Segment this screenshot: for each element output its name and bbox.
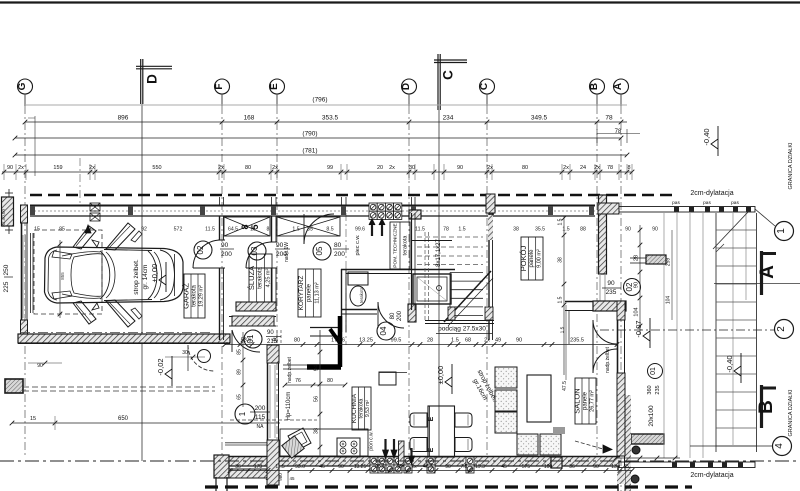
svg-text:78: 78 [607, 165, 613, 171]
svg-text:KUCHNIA: KUCHNIA [351, 393, 358, 423]
garage vertical dim [58, 240, 63, 318]
svg-text:F: F [214, 83, 225, 89]
column dot 2 [631, 475, 639, 483]
arrows down kitchen wall [383, 439, 398, 459]
dimension line row1 [23, 115, 627, 125]
svg-text:80: 80 [390, 312, 396, 319]
garage east wall [218, 216, 225, 340]
svg-text:93.6: 93.6 [295, 464, 305, 470]
svg-text:90: 90 [37, 363, 43, 369]
svg-text:19.3: 19.3 [475, 464, 485, 470]
axis bubble 2 [600, 320, 794, 339]
level marker -0,40 lower [725, 353, 741, 383]
interior dim labels row [34, 227, 658, 233]
interior dim line mid [223, 338, 620, 347]
svg-text:90: 90 [7, 165, 13, 171]
svg-text:88: 88 [580, 227, 586, 233]
window symbol grid bottom B [404, 457, 412, 473]
svg-text:C: C [441, 70, 456, 80]
bottom right expansion joint bar [614, 456, 755, 468]
grid line D [408, 94, 410, 106]
svg-text:terakota: terakota [359, 286, 364, 303]
svg-text:2x: 2x [389, 165, 395, 171]
svg-text:11.5: 11.5 [205, 227, 215, 233]
level marker -0,02 [156, 356, 172, 386]
dark box bottom wall [551, 457, 562, 468]
svg-text:E: E [428, 447, 435, 452]
svg-text:360: 360 [647, 385, 653, 394]
svg-text:259: 259 [666, 258, 672, 267]
window sill lines [225, 442, 268, 444]
svg-text:36: 36 [569, 464, 575, 470]
right exterior wall salon [617, 301, 625, 466]
svg-text:550: 550 [152, 165, 161, 171]
sofa cushion v3 [495, 412, 517, 433]
lintel X box 1 [224, 217, 270, 236]
window label 90/235 [602, 279, 641, 297]
room label SLUZA [247, 254, 272, 302]
svg-text:90: 90 [607, 280, 615, 287]
svg-text:173: 173 [254, 464, 263, 470]
svg-text:78: 78 [443, 227, 449, 233]
svg-text:nadp.żelbet: nadp.żelbet [605, 346, 611, 372]
svg-text:Rz.±0,00: Rz.±0,00 [1, 209, 6, 227]
svg-text:pion c.w.: pion c.w. [369, 431, 375, 450]
level marker -0,07 [634, 318, 650, 348]
svg-text:2cm-dylatacja: 2cm-dylatacja [690, 190, 733, 197]
svg-text:1.5: 1.5 [292, 227, 299, 233]
svg-text:POKÓJ: POKÓJ [519, 246, 528, 272]
svg-text:80: 80 [522, 165, 528, 171]
svg-text:46: 46 [272, 338, 278, 344]
svg-text:2x: 2x [18, 165, 24, 171]
svg-text:(781): (781) [302, 148, 317, 155]
svg-text:159: 159 [53, 165, 62, 171]
svg-text:90: 90 [445, 464, 451, 470]
svg-text:353.5: 353.5 [322, 115, 339, 122]
svg-text:99.5: 99.5 [391, 338, 402, 344]
svg-text:terakota: terakota [358, 398, 364, 419]
section marker A right [757, 251, 778, 295]
svg-text:GRANICA DZIAŁKI: GRANICA DZIAŁKI [788, 142, 794, 190]
svg-text:650: 650 [118, 416, 129, 422]
svg-text:2x: 2x [272, 165, 278, 171]
svg-text:30: 30 [182, 350, 188, 356]
dylatacja strip right wall [626, 395, 632, 491]
svg-text:28: 28 [427, 338, 433, 344]
dining chair 4 [455, 438, 472, 452]
svg-text:G: G [17, 82, 28, 90]
svg-text:11.5: 11.5 [415, 227, 425, 233]
kitchen west dim line [242, 332, 244, 407]
section marker C [434, 54, 467, 110]
svg-text:7.5: 7.5 [461, 464, 468, 470]
svg-text:NA: NA [257, 424, 265, 430]
svg-text:200: 200 [397, 310, 403, 321]
svg-text:11.5: 11.5 [275, 464, 285, 470]
sofa cushion h2 [540, 434, 561, 455]
auxiliary axis line [345, 213, 347, 345]
svg-text:E: E [269, 83, 280, 90]
grid bubble G [17, 79, 33, 94]
grid bubble B [589, 79, 605, 94]
column dot 1 [632, 446, 640, 454]
svg-text:78: 78 [605, 115, 613, 122]
door arc 01 [232, 330, 260, 352]
pokoj south wall [565, 301, 626, 311]
svg-text:2x: 2x [411, 464, 417, 470]
dining chair 3 [455, 413, 472, 427]
arrow down chair [410, 448, 412, 458]
door arc garage [193, 240, 221, 268]
fireplace hatched bar [631, 434, 664, 444]
left pillar bottom [5, 379, 23, 393]
room label KUCHNIA [351, 387, 371, 430]
corner hatch bar [229, 469, 268, 478]
svg-text:104: 104 [634, 307, 640, 316]
terrace top expansion joint bar [619, 201, 775, 226]
svg-text:234: 234 [443, 115, 454, 122]
svg-text:-0,07: -0,07 [634, 320, 643, 337]
svg-text:-0,40: -0,40 [725, 355, 734, 372]
svg-text:D: D [401, 83, 412, 90]
terrace diagonal [713, 212, 748, 249]
wc toilet [348, 272, 368, 306]
svg-text:(790): (790) [302, 131, 317, 138]
grid bubble A [613, 79, 629, 94]
dimension line row4 detailed [2, 164, 635, 180]
room label KORYTARZ [298, 269, 321, 317]
svg-text:90: 90 [267, 330, 274, 336]
door label 01 [244, 330, 281, 348]
room label POKOJ [519, 237, 543, 280]
svg-text:64.5: 64.5 [228, 227, 238, 233]
svg-text:99: 99 [327, 165, 333, 171]
kitchen sink [282, 428, 311, 458]
svg-text:85: 85 [307, 227, 313, 233]
window symbol grid bottom A [370, 457, 402, 473]
svg-text:85: 85 [237, 349, 243, 355]
svg-text:E: E [428, 416, 435, 421]
small tick labels left [28, 361, 62, 369]
svg-text:235.5: 235.5 [570, 338, 584, 344]
svg-text:38: 38 [396, 464, 402, 470]
svg-text:90: 90 [221, 242, 229, 249]
svg-text:terakota: terakota [258, 267, 264, 289]
svg-text:8x17,1x27: 8x17,1x27 [436, 239, 442, 267]
svg-text:94: 94 [314, 365, 320, 371]
room label GARAZ [182, 274, 205, 318]
window label 200/115 [235, 404, 270, 430]
svg-text:pas: pas [731, 201, 739, 206]
garage terrace door dashed [188, 345, 214, 371]
hatched box right upper [630, 255, 666, 264]
grid bubble F [214, 79, 230, 94]
svg-text:2x: 2x [487, 165, 493, 171]
svg-text:47.5: 47.5 [562, 381, 568, 391]
svg-text:85: 85 [59, 227, 65, 233]
salon dim vertical [560, 305, 567, 380]
svg-text:2x: 2x [218, 165, 224, 171]
section marker D [136, 59, 172, 104]
svg-text:02: 02 [196, 245, 205, 254]
svg-text:349.5: 349.5 [531, 115, 548, 122]
bottom dim line [228, 464, 635, 473]
section cut line D vertical [141, 104, 143, 461]
door label 02 [194, 241, 234, 259]
kitchen dim line y385 [285, 384, 345, 386]
door label 05 [313, 242, 349, 260]
sofa cushion v2 [495, 390, 517, 411]
car top view [45, 223, 184, 327]
svg-text:38: 38 [558, 257, 564, 263]
terrace double door [593, 320, 617, 373]
svg-text:19,29 m²: 19,29 m² [199, 285, 205, 307]
sluza east wall [270, 216, 277, 302]
dining chair 1 [410, 413, 427, 427]
grid line G [24, 94, 26, 106]
right exterior wall upper with window [598, 195, 619, 301]
dim 650 line [10, 416, 280, 430]
window symbol grid tech room [369, 203, 402, 219]
svg-text:89: 89 [237, 369, 243, 375]
axis bubble 1 [775, 222, 794, 241]
svg-text:15: 15 [30, 416, 36, 422]
svg-text:04: 04 [379, 326, 388, 335]
dining chair 2 [410, 438, 427, 452]
kitchen stove [337, 438, 360, 457]
bold wall stub wc [338, 316, 343, 367]
terrace dim vertical [666, 230, 673, 320]
svg-text:13.25: 13.25 [354, 464, 367, 470]
bold duct bar kitchen [307, 364, 341, 370]
svg-text:90: 90 [457, 165, 463, 171]
svg-text:panele: panele [529, 249, 535, 268]
staircase [417, 194, 495, 340]
terrace dashed lines left [18, 344, 230, 392]
svg-text:A: A [613, 83, 624, 90]
svg-text:strop żelbet.: strop żelbet. [133, 259, 140, 295]
svg-text:38: 38 [513, 227, 519, 233]
door swing dashed arrow [575, 441, 603, 449]
svg-text:80: 80 [245, 165, 251, 171]
window symbol grid bottom D [466, 457, 474, 473]
svg-text:9,53 m²: 9,53 m² [365, 400, 371, 417]
bottom wall stub right [617, 466, 625, 491]
svg-text:168: 168 [244, 115, 255, 122]
shower tray [413, 274, 451, 304]
svg-text:terakota: terakota [192, 285, 198, 307]
svg-text:45: 45 [623, 464, 629, 470]
svg-text:C: C [479, 83, 490, 90]
svg-text:80: 80 [334, 242, 342, 249]
svg-text:90: 90 [276, 242, 284, 249]
svg-text:2: 2 [776, 326, 787, 332]
garage door axis line [79, 158, 81, 205]
svg-text:11,13 m²: 11,13 m² [314, 282, 320, 303]
svg-text:1: 1 [776, 228, 787, 234]
grid bubble D [401, 79, 417, 94]
svg-text:1.5: 1.5 [458, 227, 465, 233]
grid line F [221, 94, 223, 106]
arrows up tech [369, 219, 385, 236]
svg-text:76: 76 [295, 378, 301, 384]
gray construction line [25, 104, 627, 106]
kitchen wall stub window [399, 441, 405, 465]
border top line [0, 1, 800, 3]
svg-text:8.5: 8.5 [326, 227, 333, 233]
svg-text:1: 1 [238, 411, 247, 416]
svg-text:piec c.w.: piec c.w. [355, 234, 361, 256]
bottom wall stub left [216, 477, 227, 491]
door arc 05 [304, 214, 334, 244]
door label 03 [248, 242, 290, 260]
svg-text:KORYTARZ: KORYTARZ [298, 276, 305, 311]
svg-text:ŚLUZA: ŚLUZA [247, 266, 256, 290]
svg-text:4: 4 [774, 443, 785, 449]
svg-text:99.6: 99.6 [355, 227, 365, 233]
korytarz-kitchen wall [229, 316, 341, 336]
wc walls [341, 269, 455, 332]
svg-text:D: D [145, 74, 160, 84]
kitchen west wall with window [267, 345, 279, 485]
sluza bottom wall [236, 302, 276, 311]
window symbol grid bottom C [427, 457, 435, 473]
svg-text:2cm-dylatacja: 2cm-dylatacja [690, 472, 733, 479]
level marker garage [150, 262, 166, 292]
svg-text:38: 38 [314, 428, 320, 434]
left pier column [2, 189, 14, 234]
svg-text:49: 49 [495, 338, 501, 344]
svg-text:46: 46 [319, 464, 325, 470]
grid line C [486, 94, 488, 106]
svg-text:92: 92 [141, 227, 147, 233]
svg-text:90: 90 [593, 464, 599, 470]
small block under sofa [553, 427, 565, 434]
dashed wall cont door01 [276, 330, 278, 345]
svg-text:8: 8 [267, 227, 270, 233]
svg-text:46.5: 46.5 [423, 464, 433, 470]
sofa cushion v1 [495, 367, 517, 388]
garage bottom wall [18, 334, 230, 343]
svg-text:20: 20 [377, 165, 383, 171]
garage slab text [133, 259, 149, 295]
grid line B [596, 94, 598, 106]
grid line A [620, 94, 622, 106]
terrace mid line [714, 283, 800, 285]
svg-text:±0,00: ±0,00 [150, 264, 159, 283]
svg-text:A: A [757, 265, 778, 279]
door label 04 [377, 310, 403, 340]
terrace deck ladder [716, 213, 757, 452]
svg-text:575: 575 [522, 464, 531, 470]
window label 360/235 [647, 364, 663, 395]
slab text salon [469, 369, 499, 407]
svg-text:2x: 2x [563, 165, 569, 171]
left dim connector [34, 116, 36, 176]
svg-text:24: 24 [580, 165, 586, 171]
svg-text:GRANICA DZIAŁKI: GRANICA DZIAŁKI [788, 389, 794, 437]
svg-text:45: 45 [289, 476, 295, 481]
stair west wall [411, 213, 452, 310]
svg-text:78: 78 [615, 129, 622, 135]
svg-text:13.25: 13.25 [359, 338, 373, 344]
grid bubble E [269, 79, 285, 94]
svg-text:35.5: 35.5 [535, 227, 545, 233]
svg-text:2x: 2x [484, 338, 490, 344]
svg-text:30: 30 [409, 165, 415, 171]
svg-text:80: 80 [327, 378, 333, 384]
svg-text:26,77 m²: 26,77 m² [590, 390, 596, 412]
svg-text:nadp.żelbet: nadp.żelbet [287, 356, 293, 382]
garage inner dashdot [20, 332, 212, 334]
svg-text:250: 250 [3, 264, 10, 275]
bold duct diagonal [330, 329, 340, 343]
eaves dashed line top [30, 194, 677, 197]
svg-text:2x: 2x [594, 165, 600, 171]
coffee table [527, 375, 551, 422]
svg-text:200: 200 [221, 251, 232, 258]
svg-text:36: 36 [235, 464, 241, 470]
kitchen vertical dim line [314, 330, 323, 456]
kitchen dashed line [230, 419, 317, 421]
svg-text:68: 68 [465, 338, 471, 344]
terrace vertical lines [664, 213, 703, 458]
svg-text:terakota: terakota [403, 235, 409, 256]
svg-text:8: 8 [240, 224, 250, 229]
svg-text:1.5: 1.5 [560, 326, 566, 333]
dimension line row2 [13, 129, 640, 143]
heavy dashed bottom line [205, 485, 692, 488]
svg-text:-0,02: -0,02 [156, 358, 165, 375]
svg-text:15: 15 [34, 227, 40, 233]
svg-text:56: 56 [314, 396, 320, 402]
grid line E [276, 94, 278, 106]
svg-text:4,25 m²: 4,25 m² [265, 269, 271, 288]
garage door leaf [30, 233, 32, 313]
section cut line C vertical [438, 110, 440, 461]
svg-text:235: 235 [655, 385, 661, 394]
dining table [428, 406, 455, 457]
svg-text:896: 896 [118, 115, 129, 122]
bottom exterior wall [228, 457, 620, 467]
tech wall block [409, 210, 421, 219]
svg-text:pas: pas [703, 201, 711, 206]
door arc sluza [246, 242, 272, 268]
svg-text:pas: pas [672, 201, 680, 206]
svg-text:45: 45 [501, 464, 507, 470]
svg-text:15: 15 [250, 227, 256, 233]
svg-text:POM. TECHNICZNE: POM. TECHNICZNE [393, 223, 399, 267]
svg-text:1.5: 1.5 [562, 227, 569, 233]
svg-text:8: 8 [627, 165, 630, 171]
vent boxes garage top wall [90, 203, 100, 221]
parking dashed rect [34, 230, 102, 314]
svg-text:B: B [589, 83, 600, 90]
tiny stack text bottom left [265, 470, 295, 488]
lintel X box 2 [277, 217, 340, 236]
svg-text:200: 200 [334, 251, 345, 258]
fridge rect [379, 372, 396, 385]
svg-text:225: 225 [3, 281, 10, 292]
svg-text:96.6: 96.6 [375, 464, 385, 470]
dim line mid garage [165, 350, 205, 359]
svg-text:(796): (796) [312, 97, 327, 104]
svg-text:100: 100 [544, 464, 553, 470]
svg-text:855: 855 [60, 272, 65, 280]
svg-text:B: B [756, 400, 777, 414]
svg-text:200: 200 [255, 405, 266, 412]
